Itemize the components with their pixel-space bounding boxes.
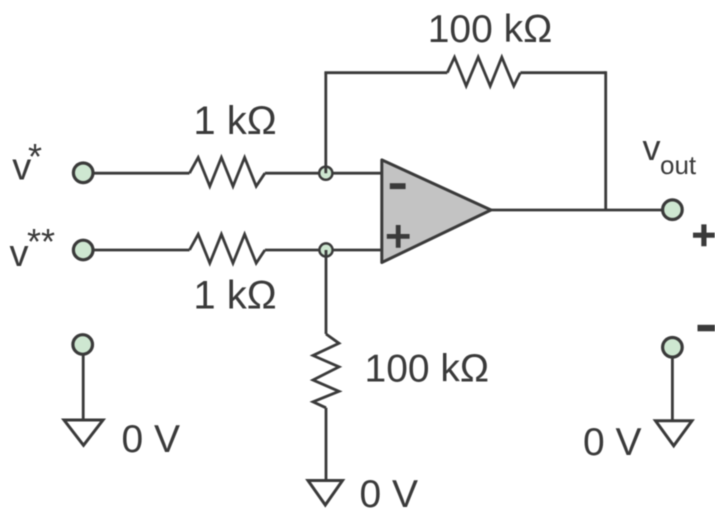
resistor R4 100 kOhm to ground [313, 334, 339, 408]
input terminal v** [73, 240, 93, 260]
node A inverting input [319, 167, 332, 180]
svg-text:100 kΩ: 100 kΩ [428, 8, 553, 51]
svg-text:0 V: 0 V [583, 421, 642, 464]
svg-text:*: * [28, 136, 42, 177]
wire feedback left vertical [324, 73, 327, 174]
svg-text:0 V: 0 V [122, 418, 181, 461]
svg-text:0 V: 0 V [360, 473, 419, 516]
ground symbol right [656, 421, 693, 446]
right source wire [671, 358, 674, 422]
wire output [489, 209, 662, 212]
terminal left source [73, 335, 93, 355]
wire to ground [325, 408, 328, 481]
wire feedback top left [324, 71, 447, 74]
wire [94, 249, 190, 252]
output terminal vout [663, 200, 683, 220]
wire feedback right vertical [604, 71, 607, 210]
minus polarity symbol at right source [698, 325, 715, 332]
left source wire [82, 355, 85, 421]
terminal right source [663, 338, 683, 358]
input terminal v* [73, 163, 93, 183]
svg-text:v: v [10, 233, 29, 275]
svg-text:1 kΩ: 1 kΩ [193, 99, 276, 143]
wire from node B down [325, 250, 328, 334]
wire [94, 172, 190, 175]
node B noninverting input [319, 243, 332, 256]
resistor R1 1 kOhm [190, 158, 265, 187]
wire feedback top right [520, 71, 605, 74]
resistor R3 100 kOhm feedback [447, 57, 520, 86]
ground symbol left [64, 420, 103, 445]
svg-text:**: ** [27, 221, 55, 262]
svg-text:1 kΩ: 1 kΩ [193, 274, 276, 318]
svg-text:v: v [643, 127, 661, 168]
op-amp minus input symbol [390, 183, 406, 189]
resistor R2 1 kOhm [190, 234, 265, 263]
ground symbol center [308, 481, 343, 506]
op-amp U1 [382, 160, 491, 263]
plus polarity symbol at output [693, 224, 715, 246]
wire [265, 172, 382, 175]
svg-text:100 kΩ: 100 kΩ [365, 348, 490, 391]
svg-text:out: out [660, 150, 697, 180]
wire [265, 249, 382, 252]
op-amp plus input symbol [387, 225, 410, 248]
